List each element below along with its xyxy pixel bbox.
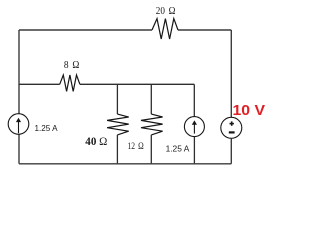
wire left [18, 30, 20, 164]
voltage source V1 circle [221, 117, 242, 138]
wire right [230, 30, 232, 117]
current source I1 circle [8, 114, 29, 135]
wire 40 ohm top lead [116, 84, 118, 114]
wire middle (node B, 8 ohm branch) [19, 83, 194, 85]
svg-text:8 Ω: 8 Ω [64, 59, 79, 71]
wire 12 ohm bottom lead [150, 135, 152, 164]
wire voltage source bottom lead [230, 138, 232, 164]
wire 12 ohm top lead [150, 84, 152, 114]
resistor 8 ohm [60, 75, 80, 91]
resistor 40 ohm [107, 114, 129, 135]
wire top (node A) [19, 29, 231, 31]
current source I1 arrow [16, 118, 21, 133]
wire current source I2 top lead [193, 84, 195, 116]
svg-text:12 Ω: 12 Ω [128, 142, 144, 152]
svg-text:20 Ω: 20 Ω [156, 6, 176, 17]
svg-text:1.25 A: 1.25 A [35, 123, 58, 133]
voltage source V1 plus [230, 121, 234, 125]
wire 40 ohm bottom lead [116, 135, 118, 164]
svg-text:1.25 A: 1.25 A [166, 143, 190, 153]
svg-text:10 V: 10 V [233, 103, 266, 119]
current source I2 arrow [192, 120, 197, 133]
wire bottom (ground node) [19, 163, 231, 165]
voltage source V1 minus [229, 131, 235, 133]
current source I2 circle [184, 117, 204, 137]
resistor 20 ohm [152, 19, 178, 39]
wire current source I2 bottom lead [193, 137, 195, 164]
svg-text:40 Ω: 40 Ω [85, 135, 107, 148]
resistor 12 ohm [141, 114, 163, 135]
